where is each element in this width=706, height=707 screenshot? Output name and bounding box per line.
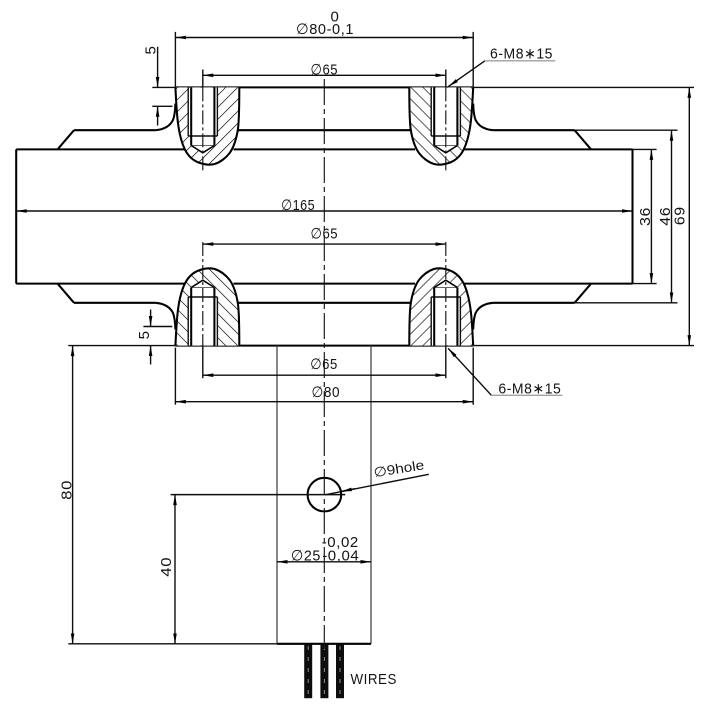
bottom-right bolt boss (section, hatched) with M8 tapped hole <box>409 268 473 345</box>
load cell body: left edge (Ø165 disc) <box>15 149 17 283</box>
wire 1 <box>304 645 312 699</box>
svg-text:∅165: ∅165 <box>281 197 315 214</box>
svg-text:∅80: ∅80 <box>312 384 341 401</box>
Ø9 hole horizontal centerline / 40-dim extension <box>171 494 346 496</box>
leader 6-M8*15 (bottom) <box>448 348 491 395</box>
dim 69 (right): dimension line <box>688 87 690 345</box>
svg-text:∅80-0,1: ∅80-0,1 <box>296 21 354 38</box>
svg-text:∅65: ∅65 <box>311 61 339 78</box>
upper surface line between bosses <box>238 129 410 131</box>
stem bottom extension line (80/40 dims) <box>68 643 277 645</box>
dim Ø80 (below bottom flange): extension lines <box>174 348 176 405</box>
svg-text:36: 36 <box>637 207 654 226</box>
dim Ø80-0,1 (top): dimension line <box>175 37 473 39</box>
top flange face (Ø80) <box>175 86 473 88</box>
bottom-left bolt boss (section, hatched) with M8 tapped hole <box>175 268 239 345</box>
bottom flange face (Ø80) <box>175 345 473 347</box>
disc bottom rim edge line <box>16 283 632 285</box>
svg-text:-0,04: -0,04 <box>322 547 359 564</box>
dim Ø65 (below bottom flange): dimension line <box>203 374 446 376</box>
svg-text:6-M8∗15: 6-M8∗15 <box>490 45 553 62</box>
bottom chamfer left <box>58 284 75 303</box>
stem (Ø25 shank): left edge <box>276 346 278 644</box>
cable hole Ø9 <box>308 478 342 512</box>
dim 5 (bottom): dimension line + arrows + tick <box>150 310 152 327</box>
svg-text:80: 80 <box>58 480 75 500</box>
dim 80 (left): dimension line <box>72 346 74 644</box>
svg-text:∅25: ∅25 <box>291 547 321 564</box>
top-right hole centerline <box>445 70 447 88</box>
leader Ø9hole <box>325 474 429 495</box>
dim Ø80 (below bottom flange): dimension line <box>175 401 473 403</box>
wire 2 <box>320 645 328 699</box>
svg-text:5: 5 <box>143 46 160 55</box>
fillet: top flange to disc surface (left) <box>155 104 175 131</box>
fillet: bottom flange to disc surface (right) <box>473 303 493 330</box>
dim 40 (left): dimension line <box>174 495 176 644</box>
load cell body: right edge (Ø165 disc) <box>631 149 633 283</box>
upper outer surface line (left of top flange) <box>74 129 155 131</box>
stem right edge <box>370 346 372 644</box>
dim 46 (right): dimension line <box>671 130 673 303</box>
part vertical centerline <box>323 79 325 649</box>
dim Ø25 tolerance: dimension line <box>277 561 371 563</box>
bottom-left hole centerline <box>202 242 204 346</box>
dim 5 (top): dimension line + arrows + tick <box>157 47 159 88</box>
top face extension line: left tick (5 dim) and right to 69 dim <box>152 86 175 88</box>
svg-text:40: 40 <box>158 557 175 577</box>
top chamfer left <box>58 130 75 149</box>
svg-text:5: 5 <box>136 330 153 339</box>
top chamfer right <box>575 130 592 149</box>
svg-text:WIRES: WIRES <box>350 671 397 688</box>
fillet: bottom flange to disc surface (left) <box>155 303 175 330</box>
upper outer surface line (right) + 46-dim extension <box>493 129 574 131</box>
svg-text:∅65: ∅65 <box>310 356 338 373</box>
extension line right of top rim (36 dim) <box>633 148 657 150</box>
dim Ø80-0,1 (top): extension lines <box>174 32 176 88</box>
svg-text:6-M8∗15: 6-M8∗15 <box>498 381 561 398</box>
wire 3 <box>336 645 344 699</box>
stem bottom edge <box>277 643 371 645</box>
dim 36 (right): dimension line <box>650 149 652 283</box>
lower surface line between bosses <box>238 302 410 304</box>
svg-text:69: 69 <box>671 206 688 225</box>
dim Ø65 (bottom bolt circle, inner): dimension line <box>203 243 446 245</box>
top-left bolt boss (section, hatched) with M8 tapped hole <box>175 87 239 164</box>
bottom chamfer right <box>575 284 592 303</box>
bottom-right hole centerline <box>445 242 447 346</box>
lower outer surface line (right) + 46-dim extension <box>493 302 574 304</box>
bottom face extension line: left to 80-dim, right to 69-dim <box>68 345 175 347</box>
top-left hole centerline <box>202 70 204 88</box>
leader 6-M8*15 (top) <box>448 61 485 87</box>
lower outer surface line (left of bottom flange) <box>74 302 155 304</box>
dim Ø165: dimension line <box>16 210 632 212</box>
svg-text:∅65: ∅65 <box>311 225 339 242</box>
extension line right of bottom rim (36 dim) <box>633 283 657 285</box>
dim Ø65 (top bolt circle): dimension line <box>203 74 446 76</box>
fillet: top flange to disc surface (right) <box>473 104 493 131</box>
disc top rim edge line <box>16 148 632 150</box>
top-right bolt boss (section, hatched) with M8 tapped hole <box>409 87 473 164</box>
